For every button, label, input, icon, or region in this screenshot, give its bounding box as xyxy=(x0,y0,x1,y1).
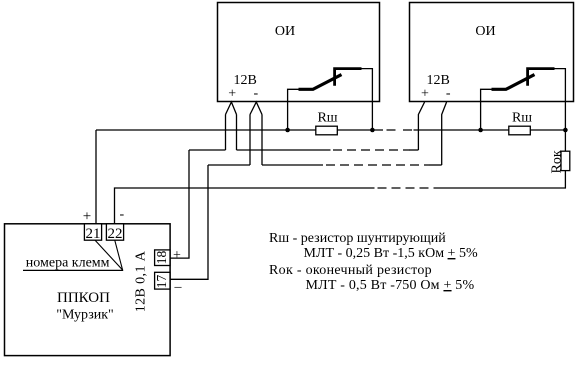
switch contact S1 wire right xyxy=(361,69,372,130)
wire terminal 17 to bus3 xyxy=(170,165,208,279)
switch contact S1 fixed contact bar xyxy=(335,69,362,86)
svg-text:+: + xyxy=(421,87,429,102)
svg-text:12В 0,1 А: 12В 0,1 А xyxy=(133,250,148,312)
svg-text:"Мурзик": "Мурзик" xyxy=(56,308,114,323)
terminal 21 xyxy=(84,224,101,240)
node junction S1 right xyxy=(370,128,375,133)
wire bus1 right solid xyxy=(414,129,566,131)
switch contact S2 lever xyxy=(492,75,535,90)
node junction S1 left xyxy=(285,128,290,133)
svg-text:–: – xyxy=(174,280,183,295)
svg-text:-: - xyxy=(119,207,124,222)
detector box U1 (ОИ) xyxy=(218,3,380,102)
switch contact S1 wire left xyxy=(288,89,299,130)
svg-text:21: 21 xyxy=(86,226,101,242)
terminal 18 xyxy=(155,250,170,266)
svg-text:+: + xyxy=(83,209,91,225)
wire B from + U1 down xyxy=(236,115,238,151)
terminal 17 xyxy=(155,272,170,289)
wire terminal 18 to bus2 xyxy=(170,150,189,258)
wire bus4 right to Rок xyxy=(434,171,565,188)
svg-text:ОИ: ОИ xyxy=(475,24,495,39)
wire D from - U1 down xyxy=(261,115,263,166)
wire + terminal U2 down xyxy=(418,102,424,150)
control panel box ППКОП xyxy=(5,224,171,356)
detector box U2 (ОИ) xyxy=(410,3,574,102)
svg-text:+: + xyxy=(173,248,181,263)
wire bus3 dashed continuation xyxy=(326,164,429,166)
switch contact S1 lever xyxy=(299,75,342,90)
wire bus4 dashed continuation xyxy=(378,187,435,189)
wire bus3 from terminal 17 xyxy=(208,164,250,166)
wire bus2 +12V from terminal 18 xyxy=(189,149,226,151)
svg-text:+: + xyxy=(228,87,236,102)
svg-text:Rок - оконечный резистор: Rок - оконечный резистор xyxy=(269,263,432,278)
svg-text:номера клемм: номера клемм xyxy=(26,256,110,271)
svg-text:Rш: Rш xyxy=(512,111,532,126)
svg-text:Rш - резистор шунтирующий: Rш - резистор шунтирующий xyxy=(269,231,446,246)
wire bus3 to - U2 xyxy=(429,164,442,166)
underline номера клемм xyxy=(23,269,123,271)
svg-text:МЛТ - 0,25 Вт -1,5 кОм + 5%: МЛТ - 0,25 Вт -1,5 кОм + 5% xyxy=(304,246,478,261)
wire bus2 dashed continuation xyxy=(333,149,410,151)
leader line to terminal 22 xyxy=(115,240,123,270)
svg-text:17: 17 xyxy=(154,274,169,288)
chevron + terminal U1 xyxy=(226,102,237,115)
resistor Rок xyxy=(561,151,570,170)
svg-text:18: 18 xyxy=(154,250,169,264)
switch contact S2 wire left xyxy=(481,89,492,130)
wire A from + U1 down xyxy=(225,115,227,151)
svg-text:Rок: Rок xyxy=(549,150,564,173)
wire C from - U1 down xyxy=(249,115,251,166)
resistor Rш 2 xyxy=(509,126,531,135)
svg-text:ППКОП: ППКОП xyxy=(57,290,110,306)
wire - terminal U2 down xyxy=(442,102,447,165)
resistor Rш 1 xyxy=(316,126,338,135)
leader line to terminal 21 xyxy=(95,240,122,270)
switch contact S2 wire right xyxy=(554,69,565,152)
svg-text:ОИ: ОИ xyxy=(275,24,295,39)
svg-text:22: 22 xyxy=(108,226,123,242)
wire bus4 return line from terminal 22 xyxy=(115,188,375,224)
wire from bus1 down to terminal 21 xyxy=(95,130,97,224)
wire bus1 dashed continuation xyxy=(387,129,413,131)
svg-text:Rш: Rш xyxy=(317,111,337,126)
chevron - terminal U1 xyxy=(250,102,262,115)
node junction S2 right xyxy=(563,128,568,133)
svg-text:-: - xyxy=(446,86,451,101)
node junction S2 left xyxy=(478,128,483,133)
wire bus1 loop line left solid xyxy=(96,129,383,131)
svg-text:-: - xyxy=(253,86,258,101)
terminal 22 xyxy=(106,224,123,240)
wire bus2 right of + U1 xyxy=(237,149,331,151)
wire bus2 to + U2 xyxy=(410,149,419,151)
svg-text:МЛТ - 0,5 Вт -750 Ом + 5%: МЛТ - 0,5 Вт -750 Ом + 5% xyxy=(306,278,475,293)
switch contact S2 fixed contact bar xyxy=(528,69,555,86)
wire bus3 right of - U1 xyxy=(262,164,323,166)
